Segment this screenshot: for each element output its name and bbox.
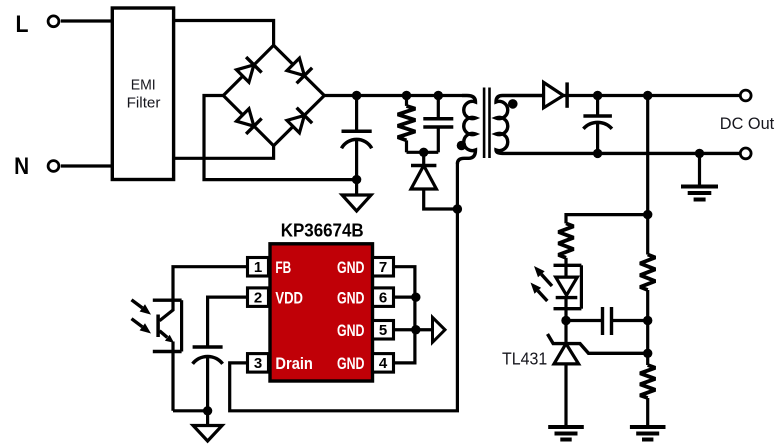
svg-text:L: L: [16, 11, 29, 38]
svg-text:7: 7: [379, 259, 387, 276]
svg-text:GND: GND: [337, 354, 365, 373]
svg-text:6: 6: [379, 290, 387, 307]
svg-text:EMI: EMI: [131, 77, 156, 94]
svg-text:GND: GND: [337, 321, 365, 340]
svg-text:Drain: Drain: [275, 354, 313, 373]
svg-text:2: 2: [254, 290, 262, 307]
svg-text:FB: FB: [275, 258, 291, 277]
svg-text:1: 1: [254, 259, 262, 276]
svg-text:GND: GND: [337, 258, 365, 277]
svg-text:Filter: Filter: [127, 95, 161, 112]
svg-text:N: N: [14, 153, 29, 180]
svg-text:DC Out: DC Out: [720, 114, 775, 133]
svg-text:VDD: VDD: [275, 288, 303, 307]
svg-text:TL431: TL431: [502, 349, 547, 369]
svg-text:KP36674B: KP36674B: [281, 220, 364, 240]
svg-text:4: 4: [379, 355, 388, 372]
svg-text:5: 5: [379, 322, 387, 339]
svg-text:GND: GND: [337, 288, 365, 307]
svg-text:3: 3: [254, 355, 262, 372]
